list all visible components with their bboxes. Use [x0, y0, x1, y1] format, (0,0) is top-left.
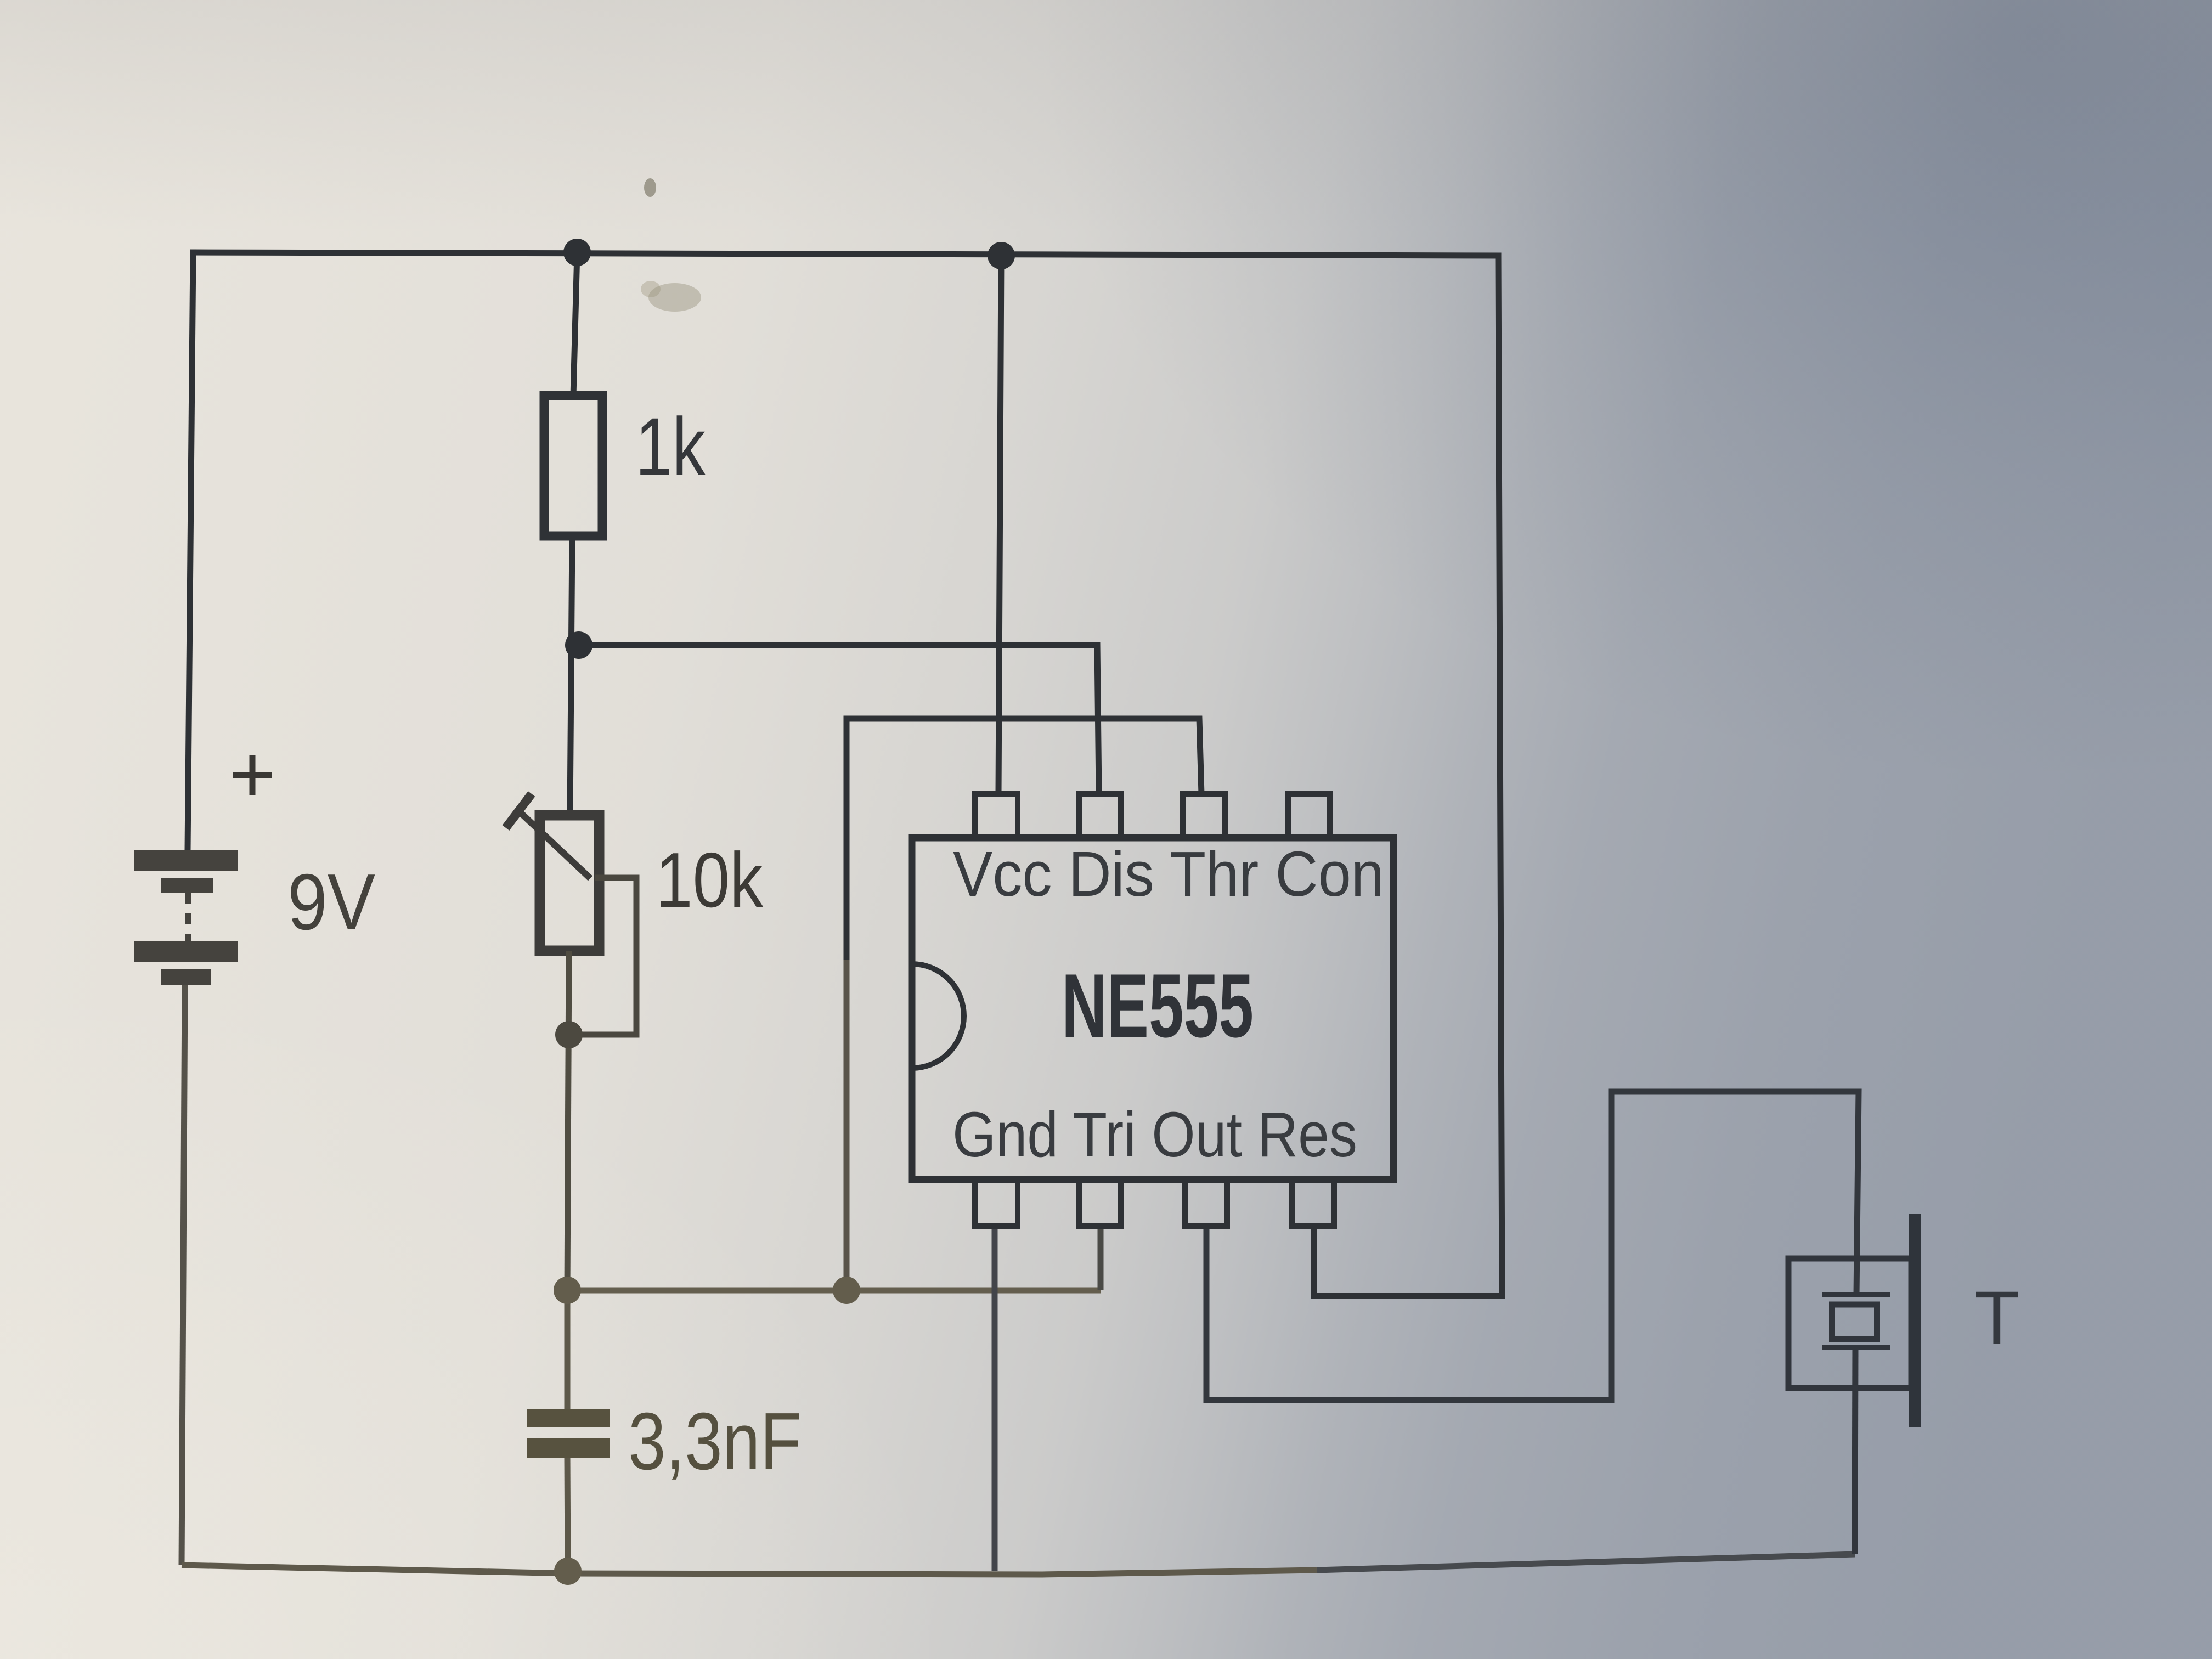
potentiometer body 10k: [540, 815, 599, 951]
wire left lower (battery -): [182, 985, 185, 1565]
speaker bar: [1909, 1214, 1921, 1427]
wire Dis feed: [579, 645, 1099, 794]
wire wiper to lower pot terminal: [571, 878, 636, 1035]
resistor R1 1k: [544, 396, 602, 536]
speaker box: [1788, 1259, 1911, 1388]
smudge mark: [648, 283, 701, 312]
battery B1 9V: [134, 850, 238, 985]
wire left upper (battery +): [188, 252, 193, 850]
node J3: [565, 631, 592, 659]
pin Thr (6): [1183, 794, 1225, 838]
capacitor C1 plates: [527, 1409, 610, 1427]
pin Out (3): [1185, 1180, 1227, 1226]
wire above 1k: [573, 252, 577, 396]
pin Tri (2): [1079, 1180, 1121, 1226]
small ink speck: [644, 178, 656, 197]
speaker T (piezo): [1788, 1259, 1911, 1554]
capacitor C1 top wire: [565, 1290, 571, 1409]
svg-text:Vcc Dis Thr Con: Vcc Dis Thr Con: [953, 838, 1384, 910]
pin Vcc (8): [975, 794, 1018, 838]
svg-text:9V: 9V: [287, 857, 375, 946]
wire top rail Vcc: [193, 252, 1498, 256]
wire Tri pin down: [1098, 1226, 1104, 1290]
piezo bottom plate: [1822, 1345, 1890, 1350]
svg-text:Gnd Tri Out Res: Gnd Tri Out Res: [952, 1099, 1357, 1170]
svg-text:3,3nF: 3,3nF: [628, 1396, 802, 1487]
svg-text:NE555: NE555: [1062, 955, 1254, 1056]
node J6 Thr/Tri: [833, 1277, 860, 1304]
junction nodes: [563, 239, 1015, 659]
svg-text:T: T: [1974, 1276, 2020, 1360]
node J7 bottom rail: [554, 1558, 582, 1585]
IC pins top row: [975, 794, 1334, 1226]
pin Gnd (1): [975, 1180, 1018, 1226]
IC notch: [912, 964, 964, 1068]
IC U1 NE555 body: [912, 838, 1393, 1180]
pin Res (4): [1292, 1180, 1334, 1226]
capacitor C1 bottom wire: [567, 1458, 568, 1571]
battery + sign: [233, 755, 272, 795]
svg-text:10k: 10k: [656, 837, 764, 924]
node J5 cap top: [554, 1277, 581, 1304]
piezo crystal: [1832, 1305, 1877, 1339]
piezo top plate: [1822, 1292, 1890, 1297]
wire Vcc feed: [998, 256, 1001, 794]
wire Thr feed: [847, 719, 1201, 960]
node J4 wiper: [555, 1021, 583, 1048]
wire Res to top rail: [1314, 256, 1502, 1296]
node J1: [563, 239, 591, 266]
wire bottom rail: [182, 1565, 1317, 1575]
wire Gnd pin down to bottom rail: [992, 1226, 998, 1571]
pin Con (5): [1288, 794, 1330, 838]
wire Out pin to speaker: [1206, 1092, 1859, 1400]
wire 1k to pot: [570, 536, 572, 815]
wire cap node to Tri (horizontal): [567, 1288, 1101, 1294]
node J2: [988, 242, 1015, 269]
wire pot down through wiper node to cap node: [567, 951, 569, 1290]
potentiometer wiper arrow: [506, 794, 590, 878]
wire bottom rail right part: [1317, 1554, 1855, 1570]
pin Dis (7): [1079, 794, 1121, 838]
svg-text:1k: 1k: [635, 400, 706, 493]
wire speaker bottom: [1855, 1347, 1855, 1554]
wire Thr feed lower part: [844, 960, 850, 1290]
